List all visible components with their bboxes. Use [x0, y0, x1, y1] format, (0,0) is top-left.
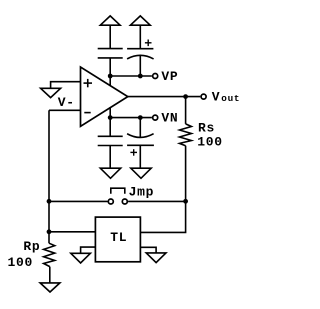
svg-text:100: 100 [8, 255, 34, 270]
wire C3 to ground [109, 146, 111, 169]
wire left rail to TL [49, 231, 95, 233]
svg-text:V-: V- [58, 95, 75, 110]
svg-text:VN: VN [161, 110, 178, 125]
power symbol arrow A2 (top right) [130, 16, 150, 25]
junction dot VN-C4 [138, 115, 143, 120]
wire op-amp output to Vout [128, 96, 201, 98]
terminal circle jumper right [122, 199, 127, 204]
wire VN rail to C4 [139, 118, 141, 137]
ground G2 (below C3) [100, 168, 120, 178]
power symbol arrow A1 (top left) [100, 16, 120, 25]
ground G3 (below C4) [131, 168, 151, 178]
ground G6 (below Rp) [40, 283, 60, 292]
wire arrow A2 to C2 [139, 25, 141, 49]
terminal circle jumper left [108, 199, 113, 204]
terminal circle VP [153, 74, 158, 79]
wire op-amp minus input [49, 109, 81, 111]
svg-text:100: 100 [197, 135, 223, 150]
ground G4 (TL left) [71, 253, 91, 263]
wire VN supply pin from op-amp down [109, 107, 111, 136]
resistor Rp [44, 232, 55, 283]
wire C2 bottom to VP rail [139, 56, 141, 76]
capacitor C3 (bottom left, non-polarized) [98, 136, 123, 145]
svg-text:Rp: Rp [23, 239, 40, 254]
terminal circle Vout [201, 94, 206, 99]
wire jumper left segment [49, 200, 108, 202]
box TL [95, 217, 140, 262]
ground G1 (at plus input) [41, 88, 61, 97]
svg-text:VP: VP [161, 69, 178, 84]
wire jumper right segment [128, 200, 186, 202]
wire C4 to ground [139, 145, 141, 168]
wire right rail down to TL [140, 201, 185, 232]
svg-text:V: V [212, 89, 221, 104]
resistor Rs [180, 97, 192, 202]
junction dot left rail TL/Rp [47, 229, 52, 234]
junction dot jumper right rail [183, 199, 188, 204]
wire TL right ground stub [140, 247, 156, 253]
junction dot output-Rs [183, 94, 188, 99]
wire left rail down [48, 110, 50, 232]
jumper Jmp bracket [111, 188, 125, 194]
capacitor C4 (bottom right, polarized) [127, 134, 154, 156]
svg-text:Jmp: Jmp [129, 184, 155, 199]
wire VN rail [110, 117, 152, 119]
capacitor C1 (top left, non-polarized) [98, 49, 123, 58]
wire TL left ground stub [81, 247, 96, 253]
junction dot VP-C1 [108, 74, 113, 79]
svg-text:Rs: Rs [198, 121, 215, 136]
wire C1 bottom to op-amp V+ supply pin [109, 58, 111, 86]
svg-text:TL: TL [110, 230, 127, 245]
junction dot jumper left rail [47, 199, 52, 204]
wire arrow A1 to C1 [109, 25, 111, 48]
svg-text:out: out [221, 93, 240, 104]
op-amp U1 [81, 67, 128, 126]
wire op-amp plus input [51, 82, 81, 89]
terminal circle VN [153, 115, 158, 120]
junction dot VP-C2 [138, 74, 143, 79]
junction dot VN-C3 [108, 115, 113, 120]
capacitor C2 (top right, polarized) [127, 40, 154, 59]
wire VP rail [110, 75, 152, 77]
ground G5 (TL right) [146, 253, 166, 263]
